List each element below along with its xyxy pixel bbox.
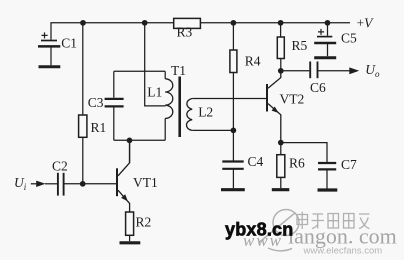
svg-text:R5: R5 xyxy=(292,38,308,53)
wire +V top rail xyxy=(50,22,350,24)
resistor R4 xyxy=(230,23,261,161)
capacitor C2 xyxy=(45,159,116,196)
ground bar R6 xyxy=(272,188,290,191)
svg-text:C2: C2 xyxy=(52,159,68,174)
svg-text:VT2: VT2 xyxy=(280,92,305,107)
svg-text:Ui: Ui xyxy=(14,175,27,192)
svg-text:R6: R6 xyxy=(289,155,305,170)
capacitor C6 xyxy=(281,62,351,96)
wire +V tap to L1 xyxy=(145,23,166,106)
svg-text:C3: C3 xyxy=(88,95,104,110)
svg-text:R2: R2 xyxy=(136,214,152,229)
svg-text:www.elecfans.com: www.elecfans.com xyxy=(303,246,383,257)
resistor R1 xyxy=(79,23,107,184)
capacitor C7 xyxy=(281,143,357,189)
inductor L2 xyxy=(186,99,213,131)
wire L2 top to VT2 base xyxy=(192,98,266,100)
ground bar R2 xyxy=(120,241,141,244)
capacitor C4 xyxy=(222,154,263,188)
svg-text:C4: C4 xyxy=(248,154,264,169)
svg-text:+V: +V xyxy=(357,16,375,31)
svg-text:ybx8.cn: ybx8.cn xyxy=(225,219,293,239)
svg-text:R4: R4 xyxy=(245,54,261,69)
wire L2 bottom xyxy=(192,129,233,131)
watermark CJK chars xyxy=(297,212,370,229)
inductor L1 xyxy=(147,71,173,140)
svg-text:C7: C7 xyxy=(341,157,357,172)
svg-text:T1: T1 xyxy=(171,63,186,78)
resistor R2 xyxy=(126,212,152,241)
svg-text:VT1: VT1 xyxy=(133,175,158,190)
svg-text:Uo: Uo xyxy=(365,62,380,79)
svg-text:C5: C5 xyxy=(341,31,357,46)
transistor VT1 xyxy=(116,140,158,212)
node junction dots xyxy=(80,20,331,187)
transformer T1 core xyxy=(171,63,186,137)
resistor R5 xyxy=(277,23,307,71)
svg-text:R1: R1 xyxy=(91,120,107,135)
ground bar C7 xyxy=(318,188,338,191)
wire tank bottom xyxy=(114,139,165,141)
transistor VT2 xyxy=(266,71,304,143)
watermark swirl logo xyxy=(259,210,299,251)
resistor R6 xyxy=(277,143,305,189)
capacitor C3 xyxy=(88,71,124,140)
resistor R3 xyxy=(174,18,201,39)
svg-text:L1: L1 xyxy=(147,84,162,99)
capacitor C5 xyxy=(314,23,357,58)
arrow input Ui xyxy=(31,183,38,185)
wire VT1 collector to tank xyxy=(129,140,131,163)
svg-text:R3: R3 xyxy=(177,25,193,40)
wire tank top xyxy=(114,70,165,72)
ground bar C4 xyxy=(221,188,245,191)
svg-text:C1: C1 xyxy=(61,36,77,51)
arrow output Uo xyxy=(349,67,359,74)
svg-text:C6: C6 xyxy=(310,80,326,95)
capacitor C1 xyxy=(38,23,77,67)
svg-text:L2: L2 xyxy=(198,105,213,120)
